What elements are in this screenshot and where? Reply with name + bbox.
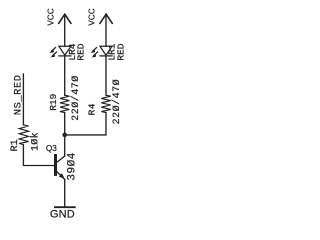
svg-text:R19: R19 [48,93,59,110]
resistor R1 [19,125,28,145]
ground GND [54,206,76,208]
wire R1 to base [23,145,54,166]
svg-text:1Øk: 1Øk [29,132,41,151]
svg-text:RED: RED [115,43,126,60]
LED LR1 [92,46,112,57]
svg-text:Q3: Q3 [46,144,57,153]
resistor R4 [101,95,110,112]
wire R19 to collector node [64,113,66,135]
svg-text:39Ø4: 39Ø4 [66,152,78,180]
svg-text:R1: R1 [10,139,21,151]
svg-text:VCC: VCC [46,8,55,25]
wire LED LR4 to R19 [64,56,66,95]
svg-text:22Ø/47Ø: 22Ø/47Ø [70,75,82,121]
svg-text:RED: RED [75,43,86,60]
junction node [62,133,67,138]
wire collector [64,135,66,156]
resistor R19 [60,95,69,112]
wire LED LR1 to R4 [105,56,107,95]
svg-text:R4: R4 [86,103,97,115]
transistor Q3 [56,156,65,180]
svg-text:VCC: VCC [87,8,96,25]
wire emitter to ground [64,179,66,207]
power VCC (right) [100,14,112,46]
wire NS_RED to R1 [22,74,24,125]
wire R4 to collector node [65,113,106,135]
LED LR4 [51,46,71,57]
svg-text:22Ø/47Ø: 22Ø/47Ø [111,79,123,125]
svg-text:GND: GND [50,209,75,221]
power VCC (left) [59,14,71,46]
